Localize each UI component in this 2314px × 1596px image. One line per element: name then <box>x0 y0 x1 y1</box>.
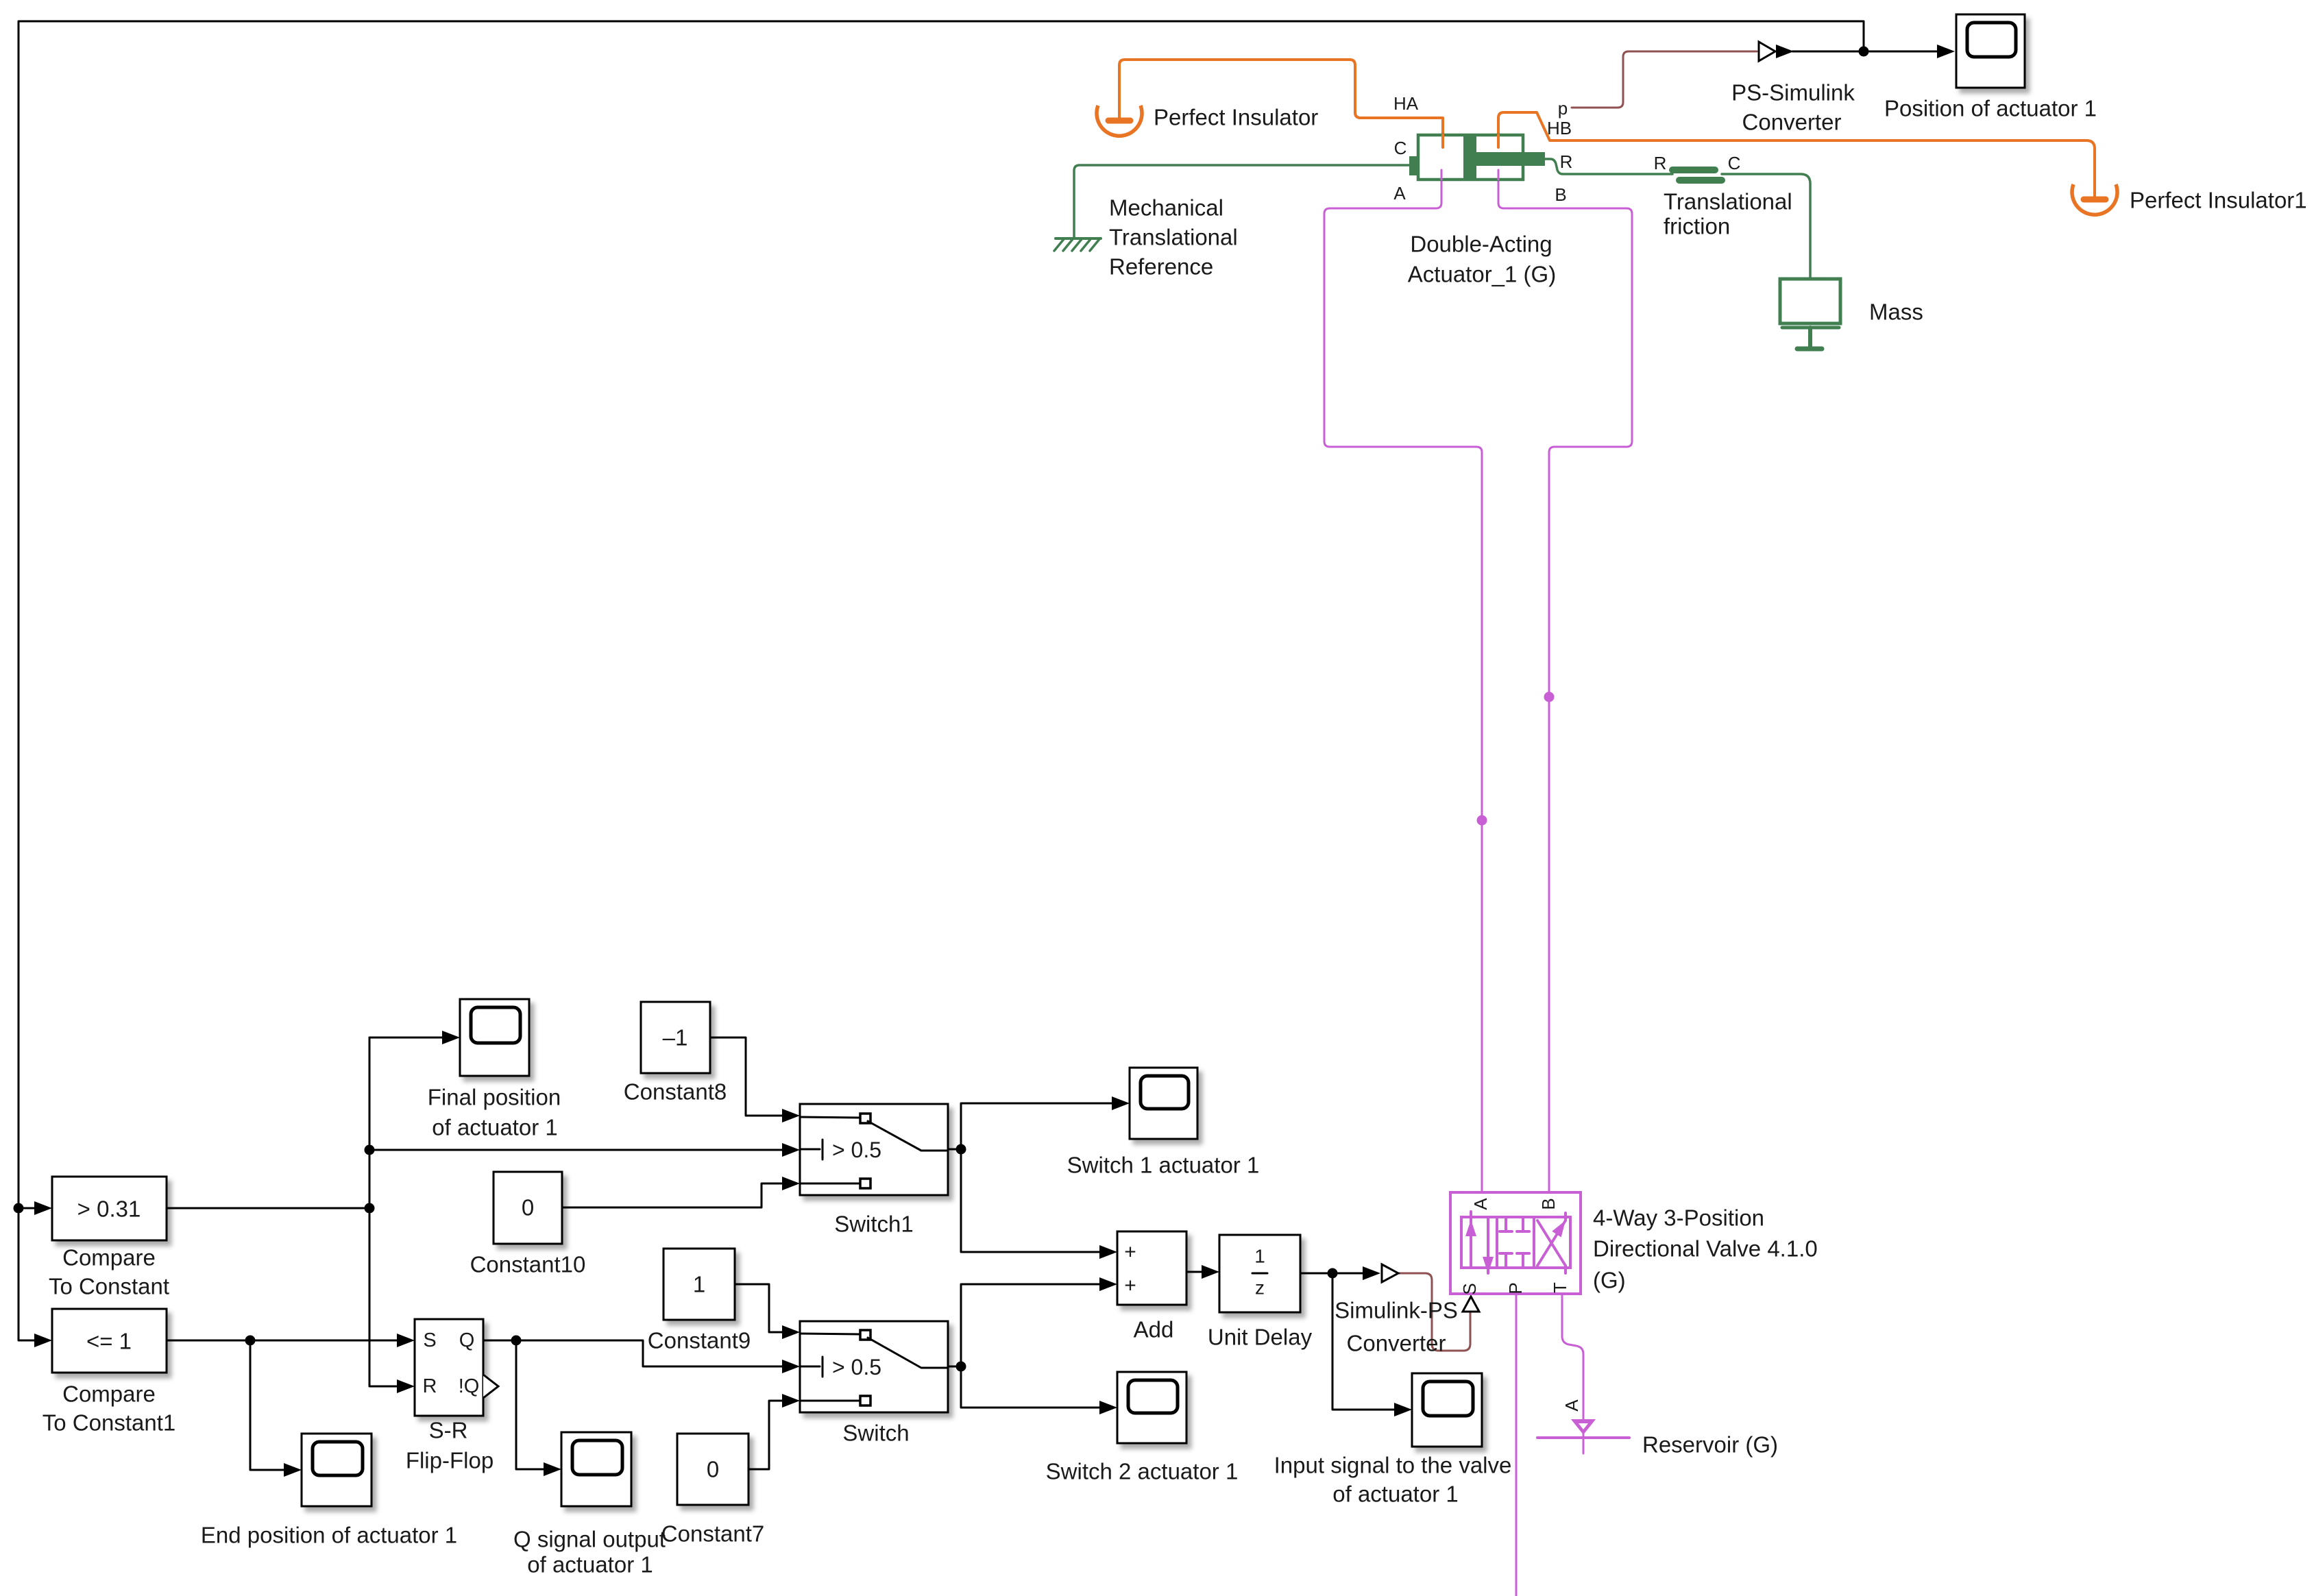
svg-text:S: S <box>1459 1283 1480 1294</box>
svg-text:0: 0 <box>522 1195 534 1220</box>
svg-text:Mass: Mass <box>1869 299 1923 325</box>
svg-text:Compare: Compare <box>62 1382 156 1407</box>
svg-text:Double-Acting: Double-Acting <box>1410 232 1552 257</box>
svg-text:> 0.31: > 0.31 <box>77 1196 141 1222</box>
svg-text:Constant10: Constant10 <box>470 1252 586 1277</box>
svg-text:R: R <box>1654 153 1667 173</box>
svg-text:A: A <box>1561 1399 1582 1412</box>
svg-text:R: R <box>423 1375 437 1397</box>
svg-text:Switch 1 actuator 1: Switch 1 actuator 1 <box>1067 1153 1260 1178</box>
svg-text:Reservoir (G): Reservoir (G) <box>1642 1432 1778 1458</box>
svg-text:Converter: Converter <box>1742 110 1842 135</box>
svg-text:B: B <box>1555 184 1566 205</box>
svg-text:of actuator 1: of actuator 1 <box>432 1115 557 1140</box>
svg-text:friction: friction <box>1664 214 1730 239</box>
svg-text:(G): (G) <box>1593 1268 1626 1293</box>
svg-text:S: S <box>423 1329 436 1351</box>
svg-text:Compare: Compare <box>62 1245 156 1270</box>
svg-text:> 0.5: > 0.5 <box>832 1138 881 1162</box>
svg-text:C: C <box>1728 153 1741 173</box>
svg-text:Position of actuator 1: Position of actuator 1 <box>1884 96 2097 121</box>
svg-text:–1: –1 <box>663 1025 688 1051</box>
svg-text:HA: HA <box>1393 93 1419 114</box>
svg-text:1: 1 <box>693 1272 705 1297</box>
svg-text:P: P <box>1505 1282 1526 1294</box>
svg-text:C: C <box>1394 138 1407 158</box>
svg-text:To Constant: To Constant <box>49 1274 169 1299</box>
svg-text:Perfect Insulator: Perfect Insulator <box>1154 105 1318 130</box>
svg-text:Q: Q <box>459 1329 475 1351</box>
svg-text:Switch1: Switch1 <box>834 1212 914 1237</box>
svg-text:p: p <box>1558 98 1568 119</box>
svg-text:B: B <box>1538 1198 1559 1210</box>
svg-text:Actuator_1 (G): Actuator_1 (G) <box>1408 262 1556 287</box>
svg-text:Constant8: Constant8 <box>624 1079 727 1105</box>
svg-text:End position of actuator 1: End position of actuator 1 <box>201 1523 457 1548</box>
svg-text:Mechanical: Mechanical <box>1109 195 1223 221</box>
svg-text:Input signal to the valve: Input signal to the valve <box>1274 1453 1512 1478</box>
svg-text:+: + <box>1124 1241 1136 1264</box>
svg-text:PS-Simulink: PS-Simulink <box>1731 80 1855 106</box>
svg-text:Flip-Flop: Flip-Flop <box>406 1448 494 1473</box>
svg-text:0: 0 <box>707 1457 719 1482</box>
svg-text:Translational: Translational <box>1109 225 1238 250</box>
svg-text:Simulink-PS: Simulink-PS <box>1335 1298 1458 1323</box>
svg-text:S-R: S-R <box>429 1418 468 1443</box>
svg-text:Constant9: Constant9 <box>648 1328 751 1353</box>
svg-text:of actuator 1: of actuator 1 <box>1332 1482 1458 1507</box>
svg-text:Reference: Reference <box>1109 254 1213 280</box>
svg-text:Switch: Switch <box>842 1421 909 1446</box>
svg-text:1: 1 <box>1254 1246 1265 1267</box>
svg-text:4-Way 3-Position: 4-Way 3-Position <box>1593 1205 1764 1231</box>
svg-text:of actuator 1: of actuator 1 <box>527 1552 653 1577</box>
svg-text:R: R <box>1560 151 1573 172</box>
svg-text:Final position: Final position <box>428 1085 561 1110</box>
svg-text:Translational: Translational <box>1664 189 1792 214</box>
svg-text:T: T <box>1550 1282 1570 1293</box>
svg-text:A: A <box>1393 183 1406 204</box>
svg-text:HB: HB <box>1547 118 1572 138</box>
svg-text:Unit Delay: Unit Delay <box>1208 1325 1313 1350</box>
svg-text:!Q: !Q <box>459 1375 480 1397</box>
svg-text:Add: Add <box>1134 1317 1174 1342</box>
svg-text:+: + <box>1124 1275 1136 1297</box>
svg-text:Q signal output: Q signal output <box>513 1527 666 1552</box>
svg-text:Converter: Converter <box>1347 1331 1446 1356</box>
svg-text:A: A <box>1470 1198 1491 1210</box>
svg-text:<= 1: <= 1 <box>86 1329 132 1354</box>
svg-text:Directional Valve 4.1.0: Directional Valve 4.1.0 <box>1593 1236 1818 1262</box>
svg-text:Switch 2 actuator 1: Switch 2 actuator 1 <box>1046 1459 1239 1484</box>
svg-text:z: z <box>1255 1277 1265 1299</box>
svg-text:Perfect Insulator1: Perfect Insulator1 <box>2130 188 2307 213</box>
svg-text:> 0.5: > 0.5 <box>832 1355 881 1379</box>
svg-text:Constant7: Constant7 <box>661 1521 764 1547</box>
svg-text:To Constant1: To Constant1 <box>42 1410 175 1436</box>
